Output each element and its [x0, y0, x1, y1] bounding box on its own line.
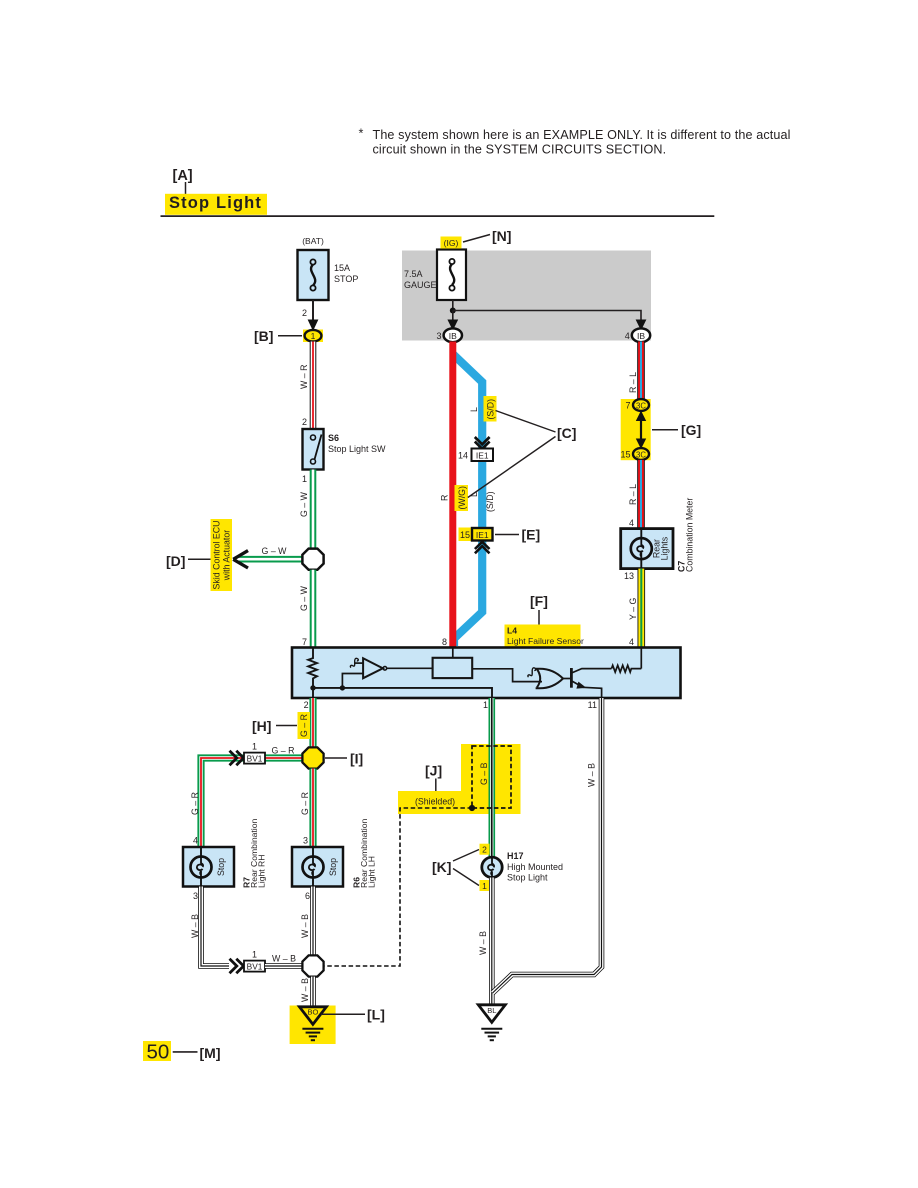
svg-text:7: 7 — [302, 637, 307, 647]
svg-text:15: 15 — [460, 530, 470, 540]
leader line [M] — [173, 1051, 198, 1053]
chevrons on wire L (down) — [475, 437, 490, 449]
svg-text:Light LH: Light LH — [367, 856, 377, 888]
lamp H17 bulb — [482, 857, 502, 877]
chevrons on G-R wire (right) — [230, 751, 244, 765]
resistor (vertical) inside sensor — [308, 649, 317, 688]
chevrons below 15 IE1 (up) — [475, 542, 490, 554]
svg-text:High Mounted: High Mounted — [507, 862, 563, 872]
svg-text:[F]: [F] — [530, 593, 548, 609]
svg-text:The system shown here is an EX: The system shown here is an EXAMPLE ONLY… — [373, 128, 791, 142]
label (S/D) upper highlighted — [484, 396, 497, 422]
svg-text:[K]: [K] — [432, 859, 451, 875]
ground rail inside sensor — [313, 688, 492, 698]
svg-text:14: 14 — [458, 451, 468, 461]
title underline — [161, 215, 715, 217]
leader line [F] — [538, 610, 540, 627]
arrow to skid control ECU — [233, 551, 248, 568]
hook symbol OR gate input — [528, 668, 536, 677]
fuse F1 symbol — [310, 259, 315, 290]
svg-text:Stop: Stop — [328, 858, 338, 876]
wire dot to connector 3 — [452, 311, 454, 323]
fuse F1 15A STOP box — [298, 250, 329, 300]
svg-text:11: 11 — [588, 700, 597, 710]
connector 15 IE1 highlighted [E] — [459, 528, 473, 542]
junction dot — [450, 308, 456, 314]
svg-text:1: 1 — [252, 950, 257, 960]
connector oval 4 IB — [632, 328, 650, 342]
wire W-B R7 to BV1 — [201, 887, 229, 967]
svg-text:*: * — [359, 127, 364, 141]
svg-text:3C: 3C — [636, 450, 646, 459]
connector pass-through arrows — [640, 414, 642, 446]
svg-text:L4: L4 — [507, 626, 517, 636]
ground node octagon — [302, 955, 323, 976]
svg-text:7.5A: 7.5A — [404, 269, 423, 279]
wire W-B H17 to ground BL — [489, 878, 495, 1005]
leader line [D] — [188, 558, 211, 560]
connector 1 BV1 lower — [244, 961, 265, 972]
wire pin 8 to resistor block — [452, 649, 454, 658]
svg-text:R: R — [440, 495, 450, 501]
hook symbol buffer input — [350, 658, 358, 667]
svg-text:1: 1 — [483, 700, 488, 710]
fuse F2 7.5A GAUGE box — [437, 250, 466, 301]
title highlight — [165, 194, 267, 215]
arrow into connector 4 — [636, 320, 647, 331]
shield dashed box — [472, 746, 511, 808]
label (IG) highlighted — [441, 237, 462, 249]
wire Y-G meter to sensor pin 4 — [637, 569, 645, 648]
svg-text:(Shielded): (Shielded) — [415, 797, 455, 807]
label Skid Control ECU with Actuator — [211, 519, 233, 591]
wire W-B BV1 to node — [265, 963, 303, 969]
svg-text:R – L: R – L — [628, 372, 638, 393]
wire L (blue) branch through IE1 junction connectors — [453, 354, 482, 646]
svg-text:4: 4 — [629, 637, 634, 647]
svg-text:W – B: W – B — [300, 914, 310, 938]
pin 2 label H17 highlighted — [480, 844, 490, 855]
page number 50 highlighted — [143, 1041, 171, 1061]
node B highlight — [303, 330, 323, 343]
svg-text:[G]: [G] — [681, 422, 701, 438]
label L4 Light Failure Sensor highlighted — [505, 625, 581, 648]
wire R (red) connector 3 to sensor pin 8 — [449, 342, 456, 649]
leader line [E] — [495, 534, 519, 536]
ground BO highlight — [290, 1006, 336, 1045]
svg-text:2: 2 — [302, 308, 307, 318]
svg-text:Light RH: Light RH — [257, 855, 267, 888]
shield highlight — [461, 744, 521, 814]
buffer (comparator) triangle — [363, 658, 383, 678]
svg-text:3C: 3C — [636, 401, 646, 410]
svg-text:GAUGE: GAUGE — [404, 280, 437, 290]
svg-text:G – W: G – W — [299, 491, 309, 517]
leader line [I] — [325, 757, 347, 759]
wire G-B sensor pin 1 to H17 — [488, 698, 495, 857]
svg-text:15: 15 — [620, 450, 630, 460]
svg-text:W – B: W – B — [300, 978, 310, 1002]
wire G-R horizontal to BV1 — [201, 758, 303, 847]
svg-text:Light Failure Sensor: Light Failure Sensor — [507, 636, 584, 646]
svg-text:4: 4 — [625, 331, 630, 341]
svg-text:[J]: [J] — [425, 763, 442, 779]
svg-text:1: 1 — [311, 331, 316, 341]
svg-text:[L]: [L] — [367, 1007, 385, 1023]
resistor (horizontal) inside sensor — [612, 665, 642, 672]
svg-text:Stop Light SW: Stop Light SW — [328, 444, 386, 454]
svg-text:BL: BL — [487, 1006, 496, 1015]
lamp R6 bulb — [303, 847, 324, 887]
svg-text:G – R: G – R — [299, 714, 309, 737]
leader line for [A] — [185, 182, 187, 195]
svg-text:[D]: [D] — [166, 553, 185, 569]
wire G-W S6 to junction — [310, 470, 317, 549]
svg-text:4: 4 — [193, 836, 198, 846]
svg-text:[A]: [A] — [173, 168, 193, 184]
connector 1 BV1 — [244, 753, 265, 764]
wire W-B sensor pin 11 to ground BL — [493, 698, 602, 993]
transistor Q1 — [570, 668, 573, 688]
wire R-L 3C to combination meter — [637, 460, 645, 529]
wire dot to connector 4 — [453, 311, 641, 323]
svg-text:G – W: G – W — [299, 585, 309, 611]
leader lines [K] — [453, 850, 479, 862]
wire G-W junction to sensor pin 7 — [310, 570, 317, 648]
connector 14 IE1 — [472, 449, 494, 462]
buffer input wire — [342, 674, 363, 688]
leader line [B] — [278, 335, 302, 337]
svg-text:6: 6 — [305, 891, 310, 901]
ground BL triangle — [478, 1005, 505, 1023]
connector G highlight — [621, 399, 651, 460]
svg-text:Stop Light: Stop Light — [169, 194, 262, 212]
svg-text:[C]: [C] — [557, 425, 576, 441]
fuse F2 symbol — [449, 259, 454, 291]
arrow into node B — [308, 320, 319, 332]
svg-text:IE1: IE1 — [476, 450, 489, 460]
svg-text:G – B: G – B — [479, 762, 489, 785]
wire fuse F2 to junction dot — [452, 300, 454, 311]
leader line [G] — [652, 429, 678, 431]
svg-text:G – R: G – R — [190, 792, 200, 815]
svg-text:BO: BO — [307, 1008, 318, 1017]
svg-text:50: 50 — [147, 1041, 170, 1064]
rear lights bulb — [631, 529, 652, 569]
svg-text:(BAT): (BAT) — [302, 236, 324, 246]
svg-text:1: 1 — [252, 742, 257, 752]
switch S6 box — [303, 429, 324, 470]
svg-text:G – W: G – W — [262, 546, 288, 556]
svg-text:BV1: BV1 — [247, 753, 263, 763]
junction dot pin2 — [310, 685, 315, 690]
chevrons on W-B wire — [230, 959, 244, 973]
svg-text:W – B: W – B — [272, 954, 296, 964]
svg-text:S6: S6 — [328, 433, 339, 443]
svg-text:8: 8 — [442, 637, 447, 647]
pin 1 label H17 highlighted — [480, 880, 490, 891]
svg-text:Y – G: Y – G — [628, 598, 638, 620]
svg-text:G – R: G – R — [300, 792, 310, 815]
svg-text:W – B: W – B — [190, 914, 200, 938]
leader lines [C] — [496, 411, 556, 433]
svg-text:Combination Meter: Combination Meter — [685, 498, 695, 572]
svg-text:H17: H17 — [507, 851, 524, 861]
junction block (gray) — [402, 251, 651, 341]
svg-text:circuit shown in the SYSTEM CI: circuit shown in the SYSTEM CIRCUITS SEC… — [373, 142, 667, 156]
svg-text:(W/G): (W/G) — [457, 486, 467, 510]
svg-text:3: 3 — [303, 836, 308, 846]
resistor block (rectangle) — [433, 658, 473, 678]
label (W/G) highlighted — [455, 485, 469, 511]
label G-R highlighted [H] — [298, 712, 311, 739]
svg-text:W – B: W – B — [587, 763, 597, 787]
svg-text:[N]: [N] — [492, 228, 511, 244]
svg-text:(IG): (IG) — [444, 238, 459, 248]
svg-text:(S/D): (S/D) — [485, 399, 495, 420]
wire G-R sensor pin 2 to node I — [309, 698, 316, 749]
leader line [N] — [463, 235, 490, 243]
svg-text:[I]: [I] — [350, 751, 363, 767]
svg-text:[B]: [B] — [254, 328, 273, 344]
svg-text:2: 2 — [482, 845, 487, 855]
svg-text:2: 2 — [304, 700, 309, 710]
junction dot buffer input — [340, 685, 345, 690]
node I octagon — [302, 747, 323, 768]
leader line [J] — [435, 779, 437, 792]
svg-text:1: 1 — [482, 881, 487, 891]
svg-text:W – B: W – B — [478, 931, 488, 955]
wire resistor to pin 4 — [640, 649, 642, 669]
svg-text:IB: IB — [637, 331, 645, 341]
shield junction dot — [469, 805, 475, 811]
wire G-R node I to R6 — [309, 769, 316, 847]
switch S6 symbol — [311, 435, 322, 465]
wire to pin 2 — [312, 688, 314, 697]
leader line [L] — [321, 1013, 365, 1015]
svg-text:4: 4 — [629, 518, 634, 528]
node B oval 1 — [305, 330, 322, 342]
svg-text:2: 2 — [302, 417, 307, 427]
combination meter box — [621, 529, 673, 569]
connector oval 15 3C — [633, 448, 649, 460]
wire R-L connector 4 to 3C — [637, 342, 645, 401]
wire W-B R6 to node — [310, 887, 316, 957]
junction node (octagon) — [302, 549, 323, 570]
wire resistor block to OR gate — [472, 669, 542, 682]
lamp R7 bulb — [191, 847, 212, 887]
wire G-W junction to ECU (horizontal) — [237, 556, 303, 563]
svg-text:3: 3 — [193, 891, 198, 901]
light failure sensor box L4 — [292, 648, 681, 699]
wire OR gate to transistor — [563, 678, 570, 680]
svg-text:G – R: G – R — [272, 746, 295, 756]
svg-text:Stop Light: Stop Light — [507, 873, 548, 883]
svg-text:3: 3 — [436, 331, 441, 341]
svg-text:L: L — [469, 407, 479, 412]
ground BO triangle — [299, 1007, 326, 1025]
svg-text:IE1: IE1 — [476, 530, 489, 540]
ground BO symbol — [302, 1029, 323, 1040]
connector oval 3 IB — [444, 328, 462, 342]
leader line [H] — [276, 725, 297, 727]
svg-text:1: 1 — [302, 474, 307, 484]
shield dashed drain wire — [324, 808, 472, 966]
svg-text:BV1: BV1 — [247, 961, 263, 971]
svg-text:Skid Control ECU: Skid Control ECU — [212, 521, 222, 590]
arrow into connector 3 — [447, 320, 458, 331]
svg-text:[E]: [E] — [522, 527, 541, 543]
svg-text:W – R: W – R — [299, 365, 309, 389]
wire buffer to resistor block — [387, 667, 433, 669]
svg-text:7: 7 — [625, 401, 630, 411]
lamp R7 box — [183, 847, 234, 887]
svg-text:IB: IB — [449, 331, 457, 341]
svg-text:Lights: Lights — [659, 536, 669, 560]
svg-text:R – L: R – L — [628, 484, 638, 505]
svg-text:STOP: STOP — [334, 274, 358, 284]
OR gate — [536, 669, 563, 689]
lamp R6 box — [292, 847, 343, 887]
svg-text:with Actuator: with Actuator — [222, 530, 232, 581]
svg-text:[M]: [M] — [200, 1045, 221, 1061]
connector oval 7 3C — [633, 399, 649, 411]
wire fuse F1 to node B — [312, 300, 314, 323]
wire W-R node B to S6 — [310, 342, 317, 430]
svg-text:[H]: [H] — [252, 718, 271, 734]
ground BL symbol — [481, 1029, 502, 1040]
svg-text:Stop: Stop — [216, 858, 226, 876]
svg-text:(S/D): (S/D) — [485, 491, 495, 512]
svg-text:15A: 15A — [334, 263, 350, 273]
wire W-B node to ground BO — [310, 977, 316, 1006]
svg-text:13: 13 — [624, 571, 634, 581]
